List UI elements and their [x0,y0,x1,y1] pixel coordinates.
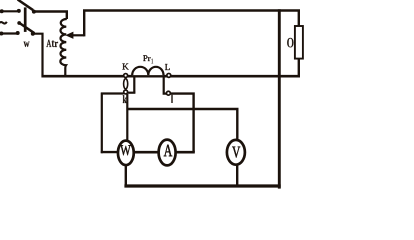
autotransformer Atr coil [60,19,66,76]
label Atr r [55,42,58,47]
label w switch label [24,42,30,47]
node dot top pivot [17,9,21,13]
wire switch to autotransformer top [36,12,67,20]
wire k down to W top [126,94,128,141]
wire left drop to W [101,93,103,154]
switch blade top pole [18,0,34,10]
label A meter letter [164,145,172,156]
switch link bar [24,7,27,32]
wire top rail [83,11,299,27]
AC source tilde [0,22,7,25]
Atr tap arrow [73,34,85,36]
wattmeter W [118,141,134,165]
label Pr1 subscript 1 [151,59,153,64]
wire bottom pole feed [0,32,17,34]
ammeter A [159,140,176,166]
terminal L circle [167,73,171,77]
wire K-side drop [133,76,135,93]
label Pr1 r [148,57,151,61]
wire W-A series [134,151,159,154]
wire k to left [101,92,124,94]
wire V bottom stub [236,165,238,187]
wire W bottom stub [125,165,127,186]
label V meter letter [232,147,240,158]
label Atr A [46,40,51,47]
wire bottom rail [124,184,280,187]
load O box [295,26,303,59]
label Atr t [52,40,55,46]
wire O box bottom stub [298,59,300,77]
terminal K circle [124,74,128,78]
node dot bottom pivot [16,31,20,35]
node dot top-left [0,9,4,13]
node dot bottom-left [0,32,3,36]
label L [165,64,170,70]
Pr1 secondary loop [124,79,128,89]
label k [123,95,127,103]
terminal l circle [166,91,170,95]
wire A right lead [175,151,194,154]
voltmeter V [227,140,245,165]
wire l to right [170,94,193,153]
wire top pole feed [0,10,17,12]
wire mid rail [41,75,300,78]
wire k right stub [128,92,136,94]
label Pr1 P [143,55,147,61]
wire W left lead [101,151,118,153]
wire right riser [278,9,281,188]
terminal k circle [124,90,128,94]
wire L-side drop [164,76,167,93]
switch blade bottom pole [19,23,35,34]
wire to voltmeter [127,109,237,140]
label W meter letter [120,145,131,155]
label O value [287,38,293,47]
wire bottom contact to left drop [34,34,43,75]
transformer Pr1 primary humps [132,67,163,75]
wire tap to top rail [83,11,85,37]
node dot top-right contact [32,10,36,14]
node dot bottom-right contact [31,32,35,36]
blade tip blob [17,21,21,25]
label l [171,95,173,103]
label K [122,64,128,70]
